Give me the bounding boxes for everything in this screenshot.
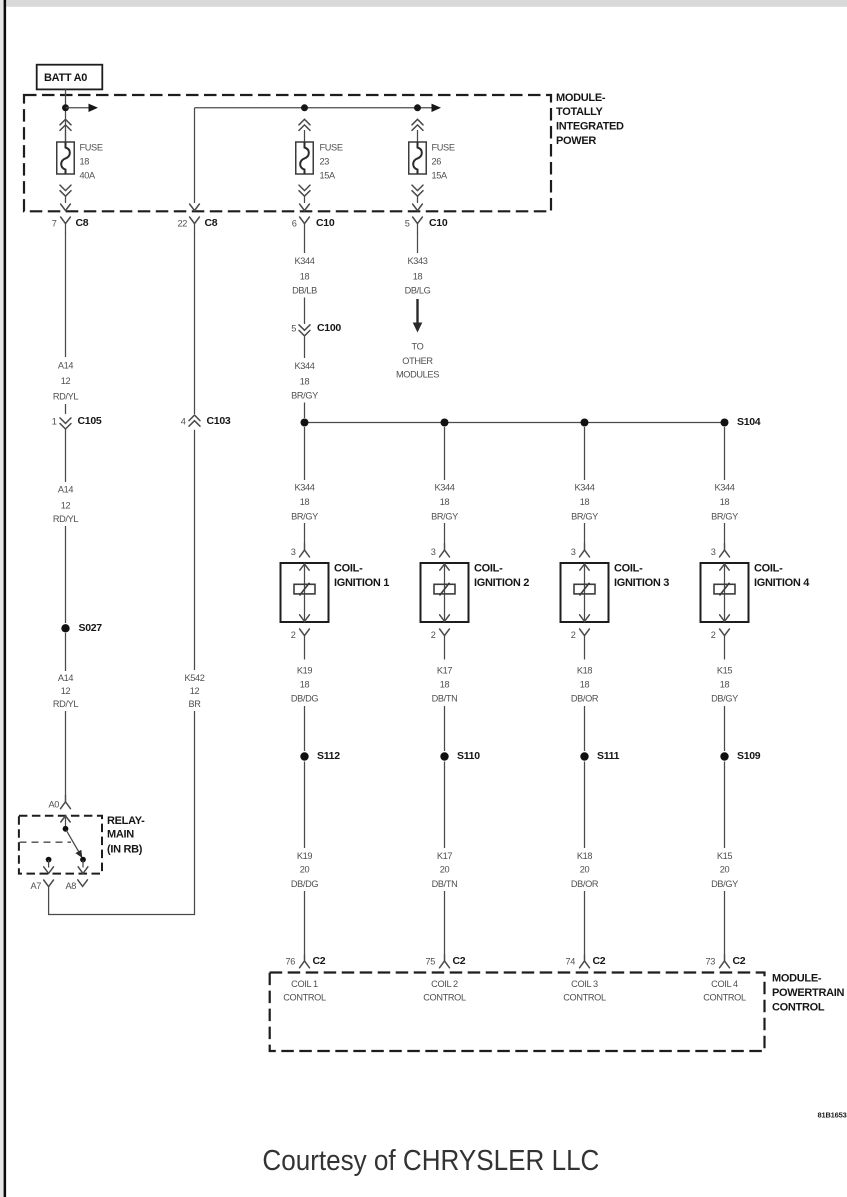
relay common wire bbox=[65, 816, 67, 828]
wire K17 to PCM connector C2 bbox=[444, 891, 446, 955]
coil 4 internal wire bbox=[724, 563, 726, 622]
wire A14 from C8 pin 7 down bbox=[65, 232, 67, 357]
svg-text:K344: K344 bbox=[294, 483, 314, 493]
svg-text:OTHER: OTHER bbox=[402, 356, 433, 366]
svg-text:12: 12 bbox=[61, 376, 71, 386]
battery feed box BATT A0 bbox=[37, 65, 103, 90]
svg-text:26: 26 bbox=[432, 157, 442, 167]
svg-text:5: 5 bbox=[405, 219, 410, 229]
svg-text:DB/LG: DB/LG bbox=[405, 285, 431, 295]
svg-text:RELAY-: RELAY- bbox=[107, 815, 145, 827]
svg-text:20: 20 bbox=[300, 865, 310, 875]
svg-text:23: 23 bbox=[320, 157, 330, 167]
svg-text:A14: A14 bbox=[58, 673, 74, 683]
coil 3 entry arrowhead bbox=[580, 564, 589, 570]
wire into coil 1 pin 3 bbox=[304, 523, 306, 544]
svg-text:A14: A14 bbox=[58, 361, 74, 371]
wire K344 from bus to coil 2 bbox=[444, 427, 446, 480]
svg-text:MAIN: MAIN bbox=[107, 829, 134, 841]
wire label K344 18 BR/GY (coil 1) bbox=[291, 483, 318, 522]
coil 2 pin 3 connector symbol bbox=[440, 544, 450, 557]
svg-text:INTEGRATED: INTEGRATED bbox=[556, 121, 624, 133]
wire K18 below splice bbox=[584, 762, 586, 849]
connector C2 pin 73 symbol bbox=[720, 955, 730, 968]
svg-text:DB/TN: DB/TN bbox=[432, 694, 458, 704]
svg-text:RD/YL: RD/YL bbox=[53, 392, 79, 402]
svg-text:Courtesy of CHRYSLER LLC: Courtesy of CHRYSLER LLC bbox=[262, 1145, 599, 1177]
wire label K18 20 DB/OR bbox=[571, 851, 599, 889]
svg-text:12: 12 bbox=[190, 686, 200, 696]
connector C103 symbol bbox=[189, 415, 200, 426]
label RELAY-MAIN (IN RB) bbox=[107, 815, 145, 855]
wire label A14 12 RD/YL (upper) bbox=[53, 361, 79, 402]
svg-text:S110: S110 bbox=[457, 750, 480, 762]
wire into coil 3 pin 3 bbox=[584, 523, 586, 544]
svg-text:75: 75 bbox=[425, 956, 435, 966]
svg-text:C8: C8 bbox=[205, 217, 218, 229]
svg-text:12: 12 bbox=[61, 686, 71, 696]
svg-text:C100: C100 bbox=[317, 322, 341, 334]
relay pin A8 connector symbol bbox=[78, 880, 88, 887]
wire K344 below C100 bbox=[304, 337, 306, 359]
svg-text:K344: K344 bbox=[294, 256, 314, 266]
wire label K17 18 DB/TN bbox=[432, 666, 458, 704]
wire K344 into splice bus bbox=[304, 403, 306, 419]
wire exit arrowhead at module edge above connector C8 pin 22 bbox=[190, 204, 200, 211]
svg-text:K343: K343 bbox=[407, 256, 427, 266]
svg-text:S112: S112 bbox=[317, 750, 340, 762]
svg-text:C105: C105 bbox=[78, 415, 102, 427]
relay contact dot (A7 side) bbox=[46, 857, 52, 863]
wire into connector C105 bbox=[65, 404, 67, 414]
svg-text:5: 5 bbox=[291, 324, 296, 334]
wire K542 from C8 pin 22 down bbox=[194, 232, 196, 414]
coil 2 entry arrowhead bbox=[440, 564, 449, 570]
svg-text:K15: K15 bbox=[717, 851, 733, 861]
svg-text:S111: S111 bbox=[597, 750, 620, 762]
relay N.O. contact dot (A8 side) bbox=[80, 857, 86, 863]
svg-text:C2: C2 bbox=[593, 955, 606, 967]
connector C10 pin 6 symbol bbox=[300, 217, 310, 233]
coil 4 exit arrowhead bbox=[720, 615, 730, 622]
coil 3 exit arrowhead bbox=[580, 615, 590, 622]
wire K17 down to splice S110 bbox=[444, 706, 446, 751]
svg-text:C103: C103 bbox=[207, 415, 231, 427]
svg-text:A8: A8 bbox=[65, 881, 76, 891]
arrow stub from node B+ to right bbox=[66, 104, 99, 112]
wire label A14 12 RD/YL (lower) bbox=[53, 673, 79, 709]
junction dot at fuse 23 feed bbox=[301, 104, 308, 111]
relay coil actuator dashed line bbox=[20, 841, 72, 843]
coil 4 pin 3 connector symbol bbox=[720, 544, 730, 557]
wire K344 from C10 pin 6 down bbox=[304, 232, 306, 253]
svg-text:IGNITION 3: IGNITION 3 bbox=[614, 577, 669, 589]
wire label K542 12 BR bbox=[184, 673, 204, 709]
svg-text:15A: 15A bbox=[320, 171, 337, 181]
svg-text:18: 18 bbox=[580, 497, 590, 507]
coil 1 entry arrowhead bbox=[300, 564, 309, 570]
wire label K17 20 DB/TN bbox=[432, 851, 458, 889]
relay switch arm with arrow bbox=[66, 830, 82, 858]
svg-text:COIL-: COIL- bbox=[334, 563, 363, 575]
svg-text:C2: C2 bbox=[733, 955, 746, 967]
svg-text:(IN RB): (IN RB) bbox=[107, 843, 143, 855]
wire K15 to PCM connector C2 bbox=[724, 891, 726, 955]
coil-ignition 4 box bbox=[701, 563, 749, 622]
svg-text:CONTROL: CONTROL bbox=[283, 993, 326, 1003]
wire K18 to PCM connector C2 bbox=[584, 891, 586, 955]
relay entry arrowhead at top edge bbox=[61, 816, 70, 822]
svg-text:CONTROL: CONTROL bbox=[703, 993, 746, 1003]
wire label K19 20 DB/DG bbox=[291, 851, 319, 889]
connector C2 pin 76 symbol bbox=[300, 955, 310, 968]
svg-text:A7: A7 bbox=[30, 881, 41, 891]
svg-text:CONTROL: CONTROL bbox=[772, 1001, 825, 1013]
wire label K344 18 BR/GY (coil 4) bbox=[711, 483, 738, 522]
relay wire A7 contact to edge bbox=[48, 860, 50, 868]
wire label A14 12 RD/YL (middle) bbox=[53, 485, 79, 525]
splice S112 dot bbox=[300, 752, 308, 760]
wire into fuse 26 bbox=[417, 130, 419, 142]
bus junction dot at coil 3 bbox=[581, 419, 589, 427]
relay pin A0 symbol bbox=[61, 796, 71, 809]
wire K344 from bus to coil 1 bbox=[304, 427, 306, 480]
svg-text:18: 18 bbox=[720, 680, 730, 690]
relay pin A7 connector symbol bbox=[44, 880, 54, 915]
coil 1 internal wire bbox=[304, 563, 306, 622]
svg-text:18: 18 bbox=[80, 157, 90, 167]
svg-text:20: 20 bbox=[720, 865, 730, 875]
coil 1 pin 2 connector symbol bbox=[300, 629, 310, 660]
svg-text:2: 2 bbox=[571, 630, 576, 640]
wire A14 below S027 bbox=[65, 633, 67, 671]
splice bus wire S104 bbox=[305, 422, 725, 424]
bus junction dot at coil 4 / S104 bbox=[721, 419, 729, 427]
connector C105 symbol bbox=[60, 418, 71, 429]
svg-text:40A: 40A bbox=[80, 171, 97, 181]
svg-text:DB/GY: DB/GY bbox=[711, 879, 738, 889]
wire K15 down to splice S109 bbox=[724, 706, 726, 751]
svg-text:18: 18 bbox=[300, 497, 310, 507]
splice S110 dot bbox=[440, 752, 448, 760]
wire fuse 23 to module edge bbox=[304, 197, 306, 204]
label COIL 1 CONTROL bbox=[283, 979, 326, 1003]
splice S111 dot bbox=[580, 752, 588, 760]
current-out chevrons below fuse 18 bbox=[60, 185, 71, 196]
label MODULE-TOTALLY INTEGRATED POWER bbox=[556, 92, 624, 147]
svg-text:C2: C2 bbox=[313, 955, 326, 967]
svg-text:S027: S027 bbox=[79, 622, 103, 634]
svg-text:76: 76 bbox=[285, 956, 295, 966]
svg-text:BR/GY: BR/GY bbox=[291, 390, 318, 400]
wire into connector C100 bbox=[304, 298, 306, 325]
svg-text:K344: K344 bbox=[574, 483, 594, 493]
coil 1 exit arrowhead bbox=[300, 615, 310, 622]
svg-text:74: 74 bbox=[565, 956, 575, 966]
wire K542 below C103 bbox=[194, 430, 196, 670]
wire K344 from bus to coil 3 bbox=[584, 427, 586, 480]
svg-text:C10: C10 bbox=[316, 217, 335, 229]
svg-text:K19: K19 bbox=[297, 666, 313, 676]
svg-text:18: 18 bbox=[440, 680, 450, 690]
current-in chevrons above fuse 26 bbox=[412, 119, 423, 130]
wire K19 below splice bbox=[304, 762, 306, 849]
svg-text:COIL 2: COIL 2 bbox=[431, 979, 458, 989]
svg-text:COIL-: COIL- bbox=[474, 563, 503, 575]
svg-text:COIL-: COIL- bbox=[614, 563, 643, 575]
module - powertrain control dashed box bbox=[270, 973, 765, 1052]
coil 3 pin 2 connector symbol bbox=[580, 629, 590, 660]
svg-text:4: 4 bbox=[181, 417, 186, 427]
wire K19 down to splice S112 bbox=[304, 706, 306, 751]
arrow to other modules bbox=[413, 299, 423, 333]
svg-text:81B1653: 81B1653 bbox=[818, 1111, 847, 1120]
svg-text:6: 6 bbox=[292, 219, 297, 229]
label COIL-IGNITION 2 bbox=[474, 563, 529, 589]
svg-text:DB/OR: DB/OR bbox=[571, 694, 599, 704]
wire exit arrowhead at module edge above connector C8 pin 7 bbox=[61, 204, 71, 211]
current-in chevrons above fuse 18 bbox=[60, 119, 71, 130]
svg-text:22: 22 bbox=[177, 219, 187, 229]
svg-text:RD/YL: RD/YL bbox=[53, 514, 79, 524]
wire into fuse 18 bbox=[65, 130, 67, 142]
svg-text:BR/GY: BR/GY bbox=[431, 512, 458, 522]
svg-text:A14: A14 bbox=[58, 485, 74, 495]
svg-text:K344: K344 bbox=[714, 483, 734, 493]
coil-ignition 3 box bbox=[561, 563, 609, 622]
current-out chevrons below fuse 23 bbox=[299, 185, 310, 196]
svg-text:7: 7 bbox=[52, 219, 57, 229]
svg-text:MODULES: MODULES bbox=[396, 370, 439, 380]
coil 4 pin 2 connector symbol bbox=[720, 629, 730, 660]
wire label K344 18 BR/GY (above splice) bbox=[291, 361, 318, 401]
svg-text:DB/DG: DB/DG bbox=[291, 694, 319, 704]
svg-text:CONTROL: CONTROL bbox=[423, 993, 466, 1003]
svg-text:RD/YL: RD/YL bbox=[53, 699, 79, 709]
wire label K15 18 DB/GY bbox=[711, 666, 738, 704]
svg-text:MODULE-: MODULE- bbox=[772, 972, 822, 984]
svg-text:2: 2 bbox=[291, 630, 296, 640]
svg-text:2: 2 bbox=[711, 630, 716, 640]
coil-ignition 1 box bbox=[281, 563, 329, 622]
wire label K344 18 BR/GY (coil 3) bbox=[571, 483, 598, 522]
junction dot at fuse 26 feed bbox=[414, 104, 421, 111]
connector C2 pin 74 symbol bbox=[580, 955, 590, 968]
svg-text:S104: S104 bbox=[737, 416, 761, 428]
svg-text:IGNITION 1: IGNITION 1 bbox=[334, 577, 389, 589]
feed wire across fuse 23 and fuse 26 with arrow bbox=[195, 104, 442, 112]
svg-text:COIL 3: COIL 3 bbox=[571, 979, 598, 989]
fuse F26 symbol bbox=[409, 142, 427, 174]
svg-text:BR/GY: BR/GY bbox=[291, 512, 318, 522]
svg-text:C10: C10 bbox=[429, 217, 448, 229]
current-in chevrons above fuse 23 bbox=[299, 119, 310, 130]
wire K344 from bus to coil 4 bbox=[724, 427, 726, 480]
wire label K344 18 DB/LB bbox=[292, 256, 317, 295]
svg-text:C2: C2 bbox=[453, 955, 466, 967]
svg-text:2: 2 bbox=[431, 630, 436, 640]
wire K19 to PCM connector C2 bbox=[304, 891, 306, 955]
svg-text:15A: 15A bbox=[432, 171, 449, 181]
relay exit arrowhead A7 bbox=[44, 867, 54, 874]
coil 2 internal wire bbox=[444, 563, 446, 622]
connector C8 pin 7 symbol bbox=[61, 217, 71, 233]
svg-text:20: 20 bbox=[580, 865, 590, 875]
wire fuse 18 to module edge bbox=[65, 197, 67, 204]
coil 2 winding element bbox=[434, 583, 455, 596]
fuse 18 value label bbox=[80, 142, 103, 180]
svg-text:3: 3 bbox=[711, 547, 716, 557]
svg-text:K15: K15 bbox=[717, 666, 733, 676]
svg-text:18: 18 bbox=[300, 377, 310, 387]
coil 1 winding element bbox=[294, 583, 315, 596]
wire from relay A7 to K542 run bbox=[49, 711, 195, 915]
svg-text:DB/GY: DB/GY bbox=[711, 694, 738, 704]
svg-text:18: 18 bbox=[440, 497, 450, 507]
label COIL 2 CONTROL bbox=[423, 979, 466, 1003]
svg-text:K18: K18 bbox=[577, 666, 593, 676]
current-out chevrons below fuse 26 bbox=[412, 185, 423, 196]
svg-text:BR: BR bbox=[188, 699, 201, 709]
svg-text:K344: K344 bbox=[294, 361, 314, 371]
label COIL 4 CONTROL bbox=[703, 979, 746, 1003]
svg-text:A0: A0 bbox=[48, 800, 59, 810]
connector C100 symbol bbox=[299, 325, 310, 336]
fuse 23 value label bbox=[320, 142, 343, 180]
svg-text:K18: K18 bbox=[577, 851, 593, 861]
svg-text:IGNITION 4: IGNITION 4 bbox=[754, 577, 810, 589]
svg-text:18: 18 bbox=[580, 680, 590, 690]
coil 3 internal wire bbox=[584, 563, 586, 622]
label MODULE-POWERTRAIN CONTROL bbox=[772, 972, 845, 1013]
label TO OTHER MODULES bbox=[396, 341, 439, 379]
coil 4 entry arrowhead bbox=[720, 564, 729, 570]
coil-ignition 2 box bbox=[421, 563, 469, 622]
svg-text:3: 3 bbox=[571, 547, 576, 557]
coil 3 pin 3 connector symbol bbox=[580, 544, 590, 557]
wire K17 below splice bbox=[444, 762, 446, 849]
wire label K18 18 DB/OR bbox=[571, 666, 599, 704]
svg-text:COIL-: COIL- bbox=[754, 563, 783, 575]
fuse F18 symbol bbox=[57, 142, 75, 174]
svg-text:3: 3 bbox=[291, 547, 296, 557]
svg-text:K542: K542 bbox=[184, 673, 204, 683]
svg-text:BR/GY: BR/GY bbox=[711, 512, 738, 522]
coil 4 winding element bbox=[714, 583, 735, 596]
svg-text:BATT A0: BATT A0 bbox=[44, 72, 87, 84]
connector C8 pin 22 symbol bbox=[190, 217, 200, 233]
wire label K19 18 DB/DG bbox=[291, 666, 319, 704]
svg-text:COIL 1: COIL 1 bbox=[291, 979, 318, 989]
coil 2 exit arrowhead bbox=[440, 615, 450, 622]
module - totally integrated power dashed box bbox=[24, 95, 551, 211]
svg-text:DB/OR: DB/OR bbox=[571, 879, 599, 889]
svg-text:CONTROL: CONTROL bbox=[563, 993, 606, 1003]
wire label K15 20 DB/GY bbox=[711, 851, 738, 889]
node B+ junction dot bbox=[62, 104, 69, 111]
fuse F23 symbol bbox=[296, 142, 314, 174]
wire fuse 26 to module edge bbox=[417, 197, 419, 204]
label COIL-IGNITION 1 bbox=[334, 563, 389, 589]
svg-text:K17: K17 bbox=[437, 666, 453, 676]
svg-text:FUSE: FUSE bbox=[320, 142, 343, 152]
connector C2 pin 75 symbol bbox=[440, 955, 450, 968]
wire A14 to relay pin A0 bbox=[65, 711, 67, 796]
svg-text:MODULE-: MODULE- bbox=[556, 92, 606, 104]
wire BATT A0 down to node B+ bbox=[65, 89, 67, 142]
svg-text:C8: C8 bbox=[76, 217, 89, 229]
wire K15 below splice bbox=[724, 762, 726, 849]
relay exit arrowhead A8 bbox=[78, 867, 88, 874]
fuse 26 value label bbox=[432, 142, 455, 180]
svg-text:BR/GY: BR/GY bbox=[571, 512, 598, 522]
svg-text:1: 1 bbox=[52, 417, 57, 427]
label COIL 3 CONTROL bbox=[563, 979, 606, 1003]
svg-text:FUSE: FUSE bbox=[432, 142, 455, 152]
svg-text:73: 73 bbox=[705, 956, 715, 966]
svg-text:DB/LB: DB/LB bbox=[292, 285, 317, 295]
svg-text:K19: K19 bbox=[297, 851, 313, 861]
coil 3 winding element bbox=[574, 583, 595, 596]
svg-text:K17: K17 bbox=[437, 851, 453, 861]
wire A14 down to splice S027 bbox=[65, 526, 67, 623]
wire K343 from C10 pin 5 down bbox=[417, 232, 419, 253]
wire A14 below C105 bbox=[65, 430, 67, 483]
svg-text:TO: TO bbox=[412, 341, 424, 351]
wire exit arrowhead at module edge above connector C10 pin 5 bbox=[413, 204, 423, 211]
wire K18 down to splice S111 bbox=[584, 706, 586, 751]
wire feed corner down to connector C8 pin 22 bbox=[194, 108, 196, 203]
svg-text:COIL 4: COIL 4 bbox=[711, 979, 738, 989]
wire into coil 2 pin 3 bbox=[444, 523, 446, 544]
svg-text:18: 18 bbox=[300, 680, 310, 690]
bus junction dot at coil 1 bbox=[301, 419, 309, 427]
svg-text:IGNITION 2: IGNITION 2 bbox=[474, 577, 529, 589]
svg-text:FUSE: FUSE bbox=[80, 142, 103, 152]
svg-text:20: 20 bbox=[440, 865, 450, 875]
svg-text:18: 18 bbox=[300, 272, 310, 282]
svg-text:18: 18 bbox=[720, 497, 730, 507]
splice S109 dot bbox=[720, 752, 728, 760]
label COIL-IGNITION 3 bbox=[614, 563, 669, 589]
svg-text:S109: S109 bbox=[737, 750, 761, 762]
wire into coil 4 pin 3 bbox=[724, 523, 726, 544]
relay wire A8 contact to edge bbox=[82, 860, 84, 868]
wire into fuse 23 bbox=[304, 130, 306, 142]
wire exit arrowhead at module edge above connector C10 pin 6 bbox=[300, 204, 310, 211]
svg-text:12: 12 bbox=[61, 501, 71, 511]
svg-text:3: 3 bbox=[431, 547, 436, 557]
wire label K344 18 BR/GY (coil 2) bbox=[431, 483, 458, 522]
label COIL-IGNITION 4 bbox=[754, 563, 810, 589]
svg-text:K344: K344 bbox=[434, 483, 454, 493]
connector C10 pin 5 symbol bbox=[413, 217, 423, 233]
wire label K343 18 DB/LG bbox=[405, 256, 431, 295]
svg-text:18: 18 bbox=[413, 272, 423, 282]
svg-text:POWERTRAIN: POWERTRAIN bbox=[772, 987, 845, 999]
coil 1 pin 3 connector symbol bbox=[300, 544, 310, 557]
svg-text:DB/TN: DB/TN bbox=[432, 879, 458, 889]
svg-text:DB/DG: DB/DG bbox=[291, 879, 319, 889]
svg-text:POWER: POWER bbox=[556, 135, 596, 147]
splice S027 dot bbox=[61, 624, 69, 632]
svg-text:TOTALLY: TOTALLY bbox=[556, 106, 604, 118]
relay common contact dot bbox=[63, 826, 69, 832]
coil 2 pin 2 connector symbol bbox=[440, 629, 450, 660]
bus junction dot at coil 2 bbox=[441, 419, 449, 427]
relay-main dashed box bbox=[19, 816, 102, 874]
